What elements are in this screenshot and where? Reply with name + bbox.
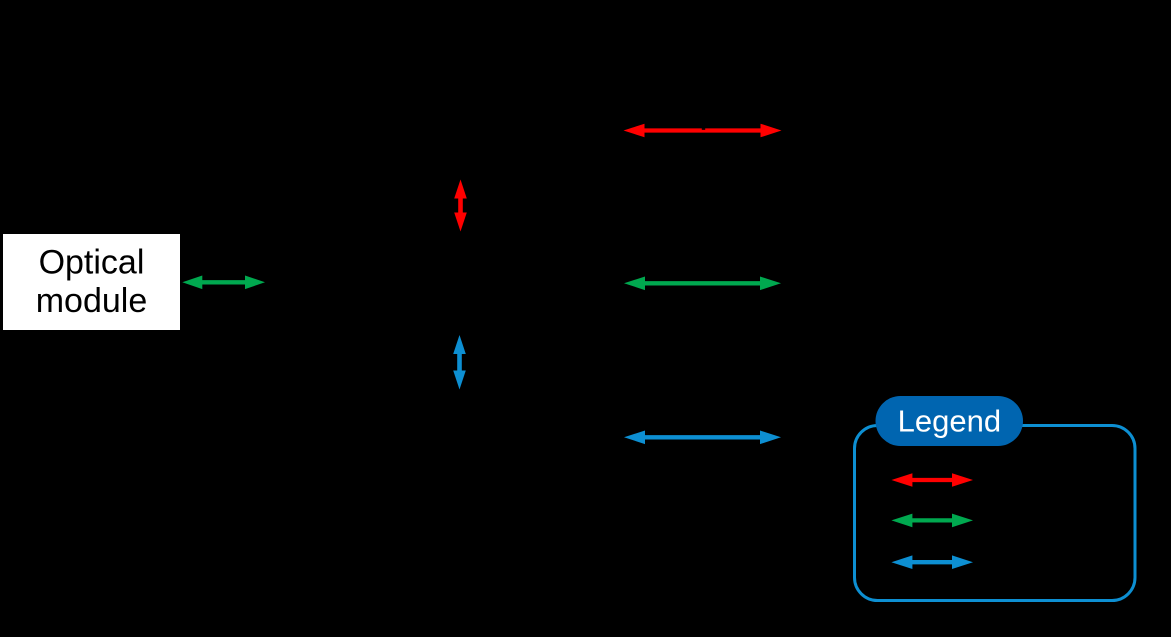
red horizontal arrow upper right xyxy=(624,124,782,138)
blue vertical arrow (control) center xyxy=(453,335,466,390)
svg-text:module: module xyxy=(36,282,148,320)
legend box border xyxy=(855,426,1136,601)
legend green arrow sample xyxy=(891,514,973,528)
svg-text:Legend: Legend xyxy=(898,404,1001,439)
legend red arrow sample xyxy=(891,473,973,487)
green optical-signal arrow at optical module xyxy=(182,276,265,290)
blue horizontal arrow lower right xyxy=(624,431,781,445)
svg-text:Optical: Optical xyxy=(39,244,145,282)
legend title pill xyxy=(876,396,1024,446)
optical module box xyxy=(3,234,180,330)
legend blue arrow sample xyxy=(891,555,973,569)
junction notch on red arrow xyxy=(702,128,705,130)
green horizontal arrow middle right xyxy=(624,277,781,291)
red vertical arrow (electrical) center xyxy=(454,180,467,232)
